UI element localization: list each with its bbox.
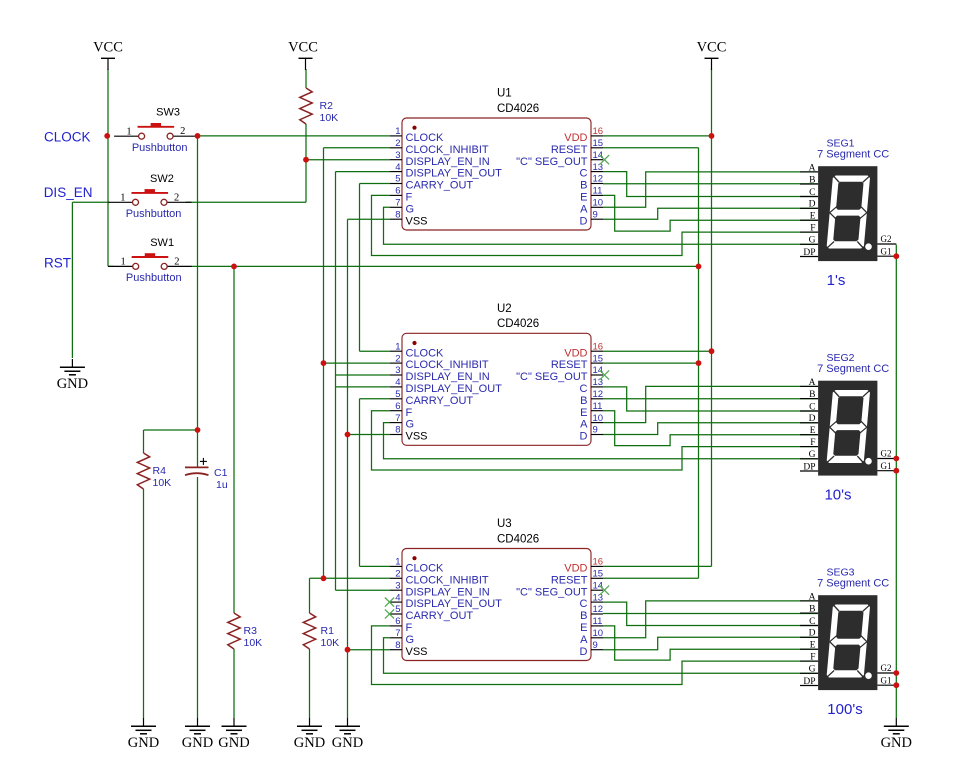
svg-text:1: 1 xyxy=(395,126,400,137)
svg-text:DP: DP xyxy=(803,248,815,258)
svg-text:B: B xyxy=(580,610,587,622)
svg-text:G: G xyxy=(809,236,816,246)
svg-text:VSS: VSS xyxy=(406,215,428,227)
svg-text:B: B xyxy=(809,390,815,400)
svg-text:SW3: SW3 xyxy=(156,107,180,119)
svg-text:4: 4 xyxy=(395,377,400,388)
svg-text:5: 5 xyxy=(395,174,400,185)
svg-text:A: A xyxy=(809,378,816,388)
svg-text:14: 14 xyxy=(593,150,604,161)
svg-text:C: C xyxy=(809,617,815,627)
svg-text:B: B xyxy=(809,605,815,615)
svg-text:D: D xyxy=(809,629,816,639)
svg-text:1: 1 xyxy=(126,126,131,137)
svg-text:CD4026: CD4026 xyxy=(497,318,539,330)
svg-text:E: E xyxy=(810,641,816,651)
svg-text:Pushbutton: Pushbutton xyxy=(132,142,188,154)
svg-text:6: 6 xyxy=(395,186,400,197)
svg-text:R2: R2 xyxy=(320,100,334,112)
svg-text:5: 5 xyxy=(395,604,400,615)
svg-text:CLOCK: CLOCK xyxy=(406,347,445,359)
svg-text:10K: 10K xyxy=(320,112,339,124)
svg-text:U2: U2 xyxy=(497,303,512,315)
svg-text:3: 3 xyxy=(395,150,400,161)
svg-text:F: F xyxy=(810,653,815,663)
svg-text:E: E xyxy=(810,426,816,436)
svg-text:DIS_EN: DIS_EN xyxy=(44,185,93,200)
svg-text:3: 3 xyxy=(395,580,400,591)
svg-text:11: 11 xyxy=(593,186,603,197)
svg-text:100's: 100's xyxy=(827,701,862,718)
svg-text:GND: GND xyxy=(182,735,213,751)
svg-text:1u: 1u xyxy=(216,479,228,491)
svg-text:DP: DP xyxy=(803,462,815,472)
svg-text:GND: GND xyxy=(881,735,912,751)
svg-text:VSS: VSS xyxy=(406,646,428,658)
svg-text:B: B xyxy=(580,180,587,192)
svg-text:8: 8 xyxy=(395,425,400,436)
svg-text:9: 9 xyxy=(593,425,598,436)
svg-text:CLOCK_INHIBIT: CLOCK_INHIBIT xyxy=(406,359,489,371)
svg-text:7: 7 xyxy=(395,413,400,424)
svg-text:RESET: RESET xyxy=(551,359,588,371)
svg-text:B: B xyxy=(580,395,587,407)
svg-text:DISPLAY_EN_OUT: DISPLAY_EN_OUT xyxy=(406,168,503,180)
svg-text:G: G xyxy=(809,665,816,675)
svg-text:1: 1 xyxy=(395,341,400,352)
svg-text:14: 14 xyxy=(593,365,604,376)
svg-text:G1: G1 xyxy=(881,246,892,256)
svg-text:D: D xyxy=(580,215,588,227)
svg-text:6: 6 xyxy=(395,616,400,627)
svg-text:8: 8 xyxy=(395,209,400,220)
svg-text:Pushbutton: Pushbutton xyxy=(126,272,182,284)
svg-text:CD4026: CD4026 xyxy=(497,103,539,115)
svg-text:A: A xyxy=(580,419,588,431)
svg-text:CARRY_OUT: CARRY_OUT xyxy=(406,610,474,622)
svg-text:VCC: VCC xyxy=(93,40,123,56)
svg-text:5: 5 xyxy=(395,389,400,400)
svg-text:10K: 10K xyxy=(321,637,340,649)
svg-text:F: F xyxy=(406,192,413,204)
svg-text:4: 4 xyxy=(395,162,400,173)
svg-text:2: 2 xyxy=(174,256,179,267)
svg-text:DISPLAY_EN_IN: DISPLAY_EN_IN xyxy=(406,586,490,598)
svg-text:A: A xyxy=(809,592,816,602)
svg-text:7 Segment CC: 7 Segment CC xyxy=(817,363,889,375)
svg-text:VCC: VCC xyxy=(288,40,318,56)
svg-text:R1: R1 xyxy=(321,625,335,637)
svg-text:11: 11 xyxy=(593,616,603,627)
svg-text:F: F xyxy=(406,622,413,634)
svg-text:RESET: RESET xyxy=(551,574,588,586)
svg-text:6: 6 xyxy=(395,401,400,412)
svg-text:"C" SEG_OUT: "C" SEG_OUT xyxy=(516,156,588,168)
svg-text:CARRY_OUT: CARRY_OUT xyxy=(406,180,474,192)
svg-text:DP: DP xyxy=(803,677,815,687)
svg-text:VSS: VSS xyxy=(406,431,428,443)
svg-text:7: 7 xyxy=(395,198,400,209)
svg-text:12: 12 xyxy=(593,174,604,185)
svg-text:9: 9 xyxy=(593,209,598,220)
svg-text:C: C xyxy=(580,168,588,180)
svg-text:G: G xyxy=(406,634,415,646)
svg-text:CD4026: CD4026 xyxy=(497,533,539,545)
svg-text:D: D xyxy=(809,414,816,424)
svg-text:3: 3 xyxy=(395,365,400,376)
svg-text:12: 12 xyxy=(593,604,604,615)
svg-text:C: C xyxy=(580,598,588,610)
svg-text:E: E xyxy=(580,192,587,204)
svg-text:1: 1 xyxy=(120,193,125,204)
svg-text:9: 9 xyxy=(593,640,598,651)
svg-text:VDD: VDD xyxy=(564,132,587,144)
svg-text:G1: G1 xyxy=(881,675,892,685)
svg-text:CLOCK: CLOCK xyxy=(406,563,445,575)
svg-text:VDD: VDD xyxy=(564,347,587,359)
svg-text:DISPLAY_EN_OUT: DISPLAY_EN_OUT xyxy=(406,383,503,395)
svg-text:F: F xyxy=(406,407,413,419)
svg-text:A: A xyxy=(580,634,588,646)
svg-text:15: 15 xyxy=(593,569,604,580)
svg-text:VDD: VDD xyxy=(564,563,587,575)
svg-text:CARRY_OUT: CARRY_OUT xyxy=(406,395,474,407)
svg-text:G1: G1 xyxy=(881,461,892,471)
svg-text:SW1: SW1 xyxy=(150,237,174,249)
svg-text:GND: GND xyxy=(218,735,249,751)
svg-text:E: E xyxy=(580,622,587,634)
svg-text:16: 16 xyxy=(593,557,604,568)
svg-text:7 Segment CC: 7 Segment CC xyxy=(817,148,889,160)
svg-text:1: 1 xyxy=(120,257,125,268)
svg-text:E: E xyxy=(580,407,587,419)
svg-text:"C" SEG_OUT: "C" SEG_OUT xyxy=(516,371,588,383)
svg-text:14: 14 xyxy=(593,580,604,591)
svg-text:DISPLAY_EN_OUT: DISPLAY_EN_OUT xyxy=(406,598,503,610)
svg-text:15: 15 xyxy=(593,138,604,149)
svg-text:2: 2 xyxy=(180,126,185,137)
svg-text:U3: U3 xyxy=(497,518,512,530)
svg-text:D: D xyxy=(580,431,588,443)
svg-text:CLOCK_INHIBIT: CLOCK_INHIBIT xyxy=(406,574,489,586)
svg-text:C: C xyxy=(809,402,815,412)
svg-text:F: F xyxy=(810,224,815,234)
svg-text:2: 2 xyxy=(395,138,400,149)
svg-text:GND: GND xyxy=(332,735,363,751)
svg-text:12: 12 xyxy=(593,389,604,400)
svg-text:RESET: RESET xyxy=(551,144,588,156)
svg-text:16: 16 xyxy=(593,341,604,352)
svg-text:8: 8 xyxy=(395,640,400,651)
svg-text:CLOCK: CLOCK xyxy=(44,130,91,145)
svg-text:A: A xyxy=(809,163,816,173)
svg-text:15: 15 xyxy=(593,353,604,364)
svg-text:G: G xyxy=(406,419,415,431)
svg-text:CLOCK_INHIBIT: CLOCK_INHIBIT xyxy=(406,144,489,156)
svg-text:11: 11 xyxy=(593,401,603,412)
svg-text:VCC: VCC xyxy=(697,40,727,56)
svg-text:C: C xyxy=(809,188,815,198)
svg-text:10K: 10K xyxy=(153,477,172,489)
svg-text:C: C xyxy=(580,383,588,395)
svg-text:Pushbutton: Pushbutton xyxy=(126,208,182,220)
svg-text:D: D xyxy=(580,646,588,658)
svg-text:C1: C1 xyxy=(214,467,228,479)
svg-text:R3: R3 xyxy=(244,625,258,637)
svg-text:GND: GND xyxy=(57,376,88,392)
svg-text:B: B xyxy=(809,176,815,186)
svg-text:2: 2 xyxy=(174,192,179,203)
svg-text:10's: 10's xyxy=(824,487,851,504)
svg-text:10: 10 xyxy=(593,198,604,209)
svg-text:7: 7 xyxy=(395,628,400,639)
svg-text:7 Segment CC: 7 Segment CC xyxy=(817,577,889,589)
svg-text:F: F xyxy=(810,438,815,448)
svg-text:CLOCK: CLOCK xyxy=(406,132,445,144)
svg-text:G2: G2 xyxy=(881,449,892,459)
svg-text:A: A xyxy=(580,203,588,215)
svg-text:U1: U1 xyxy=(497,88,512,100)
svg-text:GND: GND xyxy=(128,735,159,751)
svg-text:DISPLAY_EN_IN: DISPLAY_EN_IN xyxy=(406,371,490,383)
svg-text:2: 2 xyxy=(395,569,400,580)
svg-text:4: 4 xyxy=(395,592,400,603)
svg-text:10K: 10K xyxy=(244,637,263,649)
svg-text:10: 10 xyxy=(593,628,604,639)
svg-text:10: 10 xyxy=(593,413,604,424)
svg-text:G: G xyxy=(406,203,415,215)
svg-text:G2: G2 xyxy=(881,663,892,673)
svg-text:DISPLAY_EN_IN: DISPLAY_EN_IN xyxy=(406,156,490,168)
svg-text:SW2: SW2 xyxy=(150,173,174,185)
svg-text:E: E xyxy=(810,212,816,222)
svg-text:RST: RST xyxy=(44,256,71,271)
svg-text:"C" SEG_OUT: "C" SEG_OUT xyxy=(516,586,588,598)
svg-text:D: D xyxy=(809,200,816,210)
svg-text:GND: GND xyxy=(294,735,325,751)
svg-text:1: 1 xyxy=(395,557,400,568)
svg-text:R4: R4 xyxy=(153,465,167,477)
svg-text:G2: G2 xyxy=(881,234,892,244)
svg-text:2: 2 xyxy=(395,353,400,364)
svg-text:1's: 1's xyxy=(827,272,846,289)
svg-text:16: 16 xyxy=(593,126,604,137)
svg-text:G: G xyxy=(809,450,816,460)
